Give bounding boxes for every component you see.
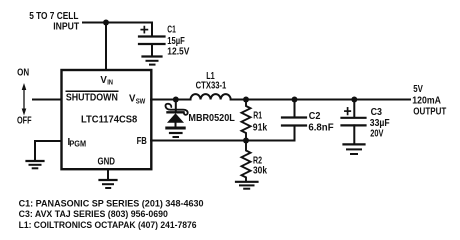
svg-text:SW: SW bbox=[136, 98, 146, 105]
svg-text:SHUTDOWN: SHUTDOWN bbox=[66, 92, 118, 103]
svg-text:C1: C1 bbox=[167, 25, 176, 36]
svg-text:C3: C3 bbox=[371, 107, 383, 118]
svg-text:12.5V: 12.5V bbox=[167, 47, 190, 58]
svg-text:L1: COILTRONICS OCTAPAK (407): L1: COILTRONICS OCTAPAK (407) 241-7876 bbox=[19, 220, 197, 230]
svg-text:INPUT: INPUT bbox=[53, 21, 79, 32]
svg-text:C3: AVX TAJ SERIES (803) 956-0: C3: AVX TAJ SERIES (803) 956-0690 bbox=[19, 209, 168, 219]
svg-text:33µF: 33µF bbox=[370, 118, 390, 129]
svg-text:PGM: PGM bbox=[69, 139, 86, 148]
svg-text:R1: R1 bbox=[253, 111, 262, 122]
svg-text:CTX33-1: CTX33-1 bbox=[196, 81, 227, 92]
svg-text:C2: C2 bbox=[309, 111, 321, 122]
svg-text:120mA: 120mA bbox=[412, 96, 441, 107]
svg-text:IN: IN bbox=[107, 80, 113, 87]
svg-text:20V: 20V bbox=[370, 129, 384, 140]
svg-text:OUTPUT: OUTPUT bbox=[413, 106, 446, 117]
svg-text:C1: PANASONIC SP SERIES (201): C1: PANASONIC SP SERIES (201) 348-4630 bbox=[19, 199, 204, 209]
svg-text:FB: FB bbox=[137, 136, 147, 147]
svg-text:GND: GND bbox=[98, 156, 116, 167]
svg-text:30k: 30k bbox=[253, 166, 268, 177]
svg-text:OFF: OFF bbox=[17, 116, 32, 127]
svg-text:91k: 91k bbox=[253, 122, 268, 133]
svg-text:LTC1174CS8: LTC1174CS8 bbox=[81, 115, 138, 126]
svg-text:MBR0520L: MBR0520L bbox=[188, 113, 234, 124]
svg-text:6.8nF: 6.8nF bbox=[308, 123, 333, 134]
svg-text:5V: 5V bbox=[413, 84, 423, 95]
svg-text:ON: ON bbox=[17, 68, 29, 79]
svg-text:15µF: 15µF bbox=[167, 36, 185, 47]
